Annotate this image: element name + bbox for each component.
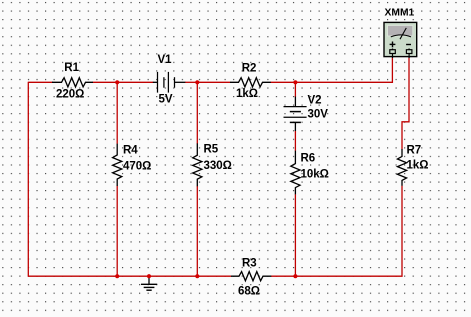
svg-text:R3: R3 [242,258,257,270]
wire node C down to V2 [294,82,296,97]
wire R6 down to node G [294,194,296,276]
svg-text:30V: 30V [308,109,329,121]
resistor R1 [52,78,93,87]
wire node C to multimeter plus riser [295,58,392,83]
wire node F to ground node [149,275,197,277]
wire R3 to node F [197,275,231,277]
wire node A to V1 [117,81,153,83]
wire R1 to node A [93,81,118,83]
svg-text:R2: R2 [242,62,257,74]
wire left vertical from top-left corner down to bottom rail [27,82,29,277]
wire ground node to node E [117,275,149,277]
battery V2 [284,97,307,131]
wire node E to bottom-left corner [28,275,117,277]
svg-text:R5: R5 [204,144,219,156]
resistor R2 [230,78,271,87]
svg-text:5V: 5V [159,93,173,105]
svg-text:470Ω: 470Ω [123,161,151,173]
node G junction [293,274,297,278]
ground node junction [147,274,151,278]
wire node B down to R5 [196,82,198,143]
svg-text:V1: V1 [158,54,173,66]
svg-text:10kΩ: 10kΩ [301,169,329,181]
svg-text:XMM1: XMM1 [385,7,415,18]
svg-text:1kΩ: 1kΩ [236,88,258,100]
wire R2 to node C [271,81,296,83]
resistor R4 [113,144,122,186]
wire V2 to R6 [294,131,296,151]
svg-text:R7: R7 [407,144,422,156]
node A junction [115,80,119,84]
wire node A down to R4 [116,82,118,144]
resistor R7 [397,149,406,186]
wire node B to R2 [197,81,230,83]
resistor R6 [291,151,300,195]
wire R7 to bottom rail corner [295,186,402,277]
wire R4 down to node E [116,186,118,276]
svg-text:330Ω: 330Ω [204,160,232,172]
wire V1 to node B [185,81,197,83]
ground [141,276,157,290]
svg-text:220Ω: 220Ω [56,89,84,101]
multimeter XMM1 [384,22,417,58]
node B junction [195,80,199,84]
wire R5 down to node F [196,186,198,276]
svg-text:68Ω: 68Ω [238,285,260,297]
battery V1 [153,72,186,93]
resistor R3 [231,272,271,281]
node C junction [293,80,297,84]
svg-text:R6: R6 [301,153,316,165]
svg-text:R1: R1 [64,62,79,74]
node F junction [195,274,199,278]
node E junction [115,274,119,278]
wire multimeter minus pin down and step left to R7 [402,58,409,150]
wire node G to R3 [271,275,295,277]
resistor R5 [193,143,202,186]
wire top-left corner to R1 [28,81,53,83]
svg-text:R4: R4 [123,145,138,157]
svg-text:1kΩ: 1kΩ [407,160,429,172]
svg-text:V2: V2 [308,95,322,107]
